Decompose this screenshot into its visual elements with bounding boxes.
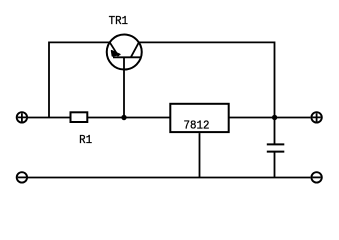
svg-text:TR1: TR1	[109, 16, 129, 29]
svg-text:R1: R1	[79, 134, 92, 147]
svg-text:7812: 7812	[184, 120, 210, 133]
